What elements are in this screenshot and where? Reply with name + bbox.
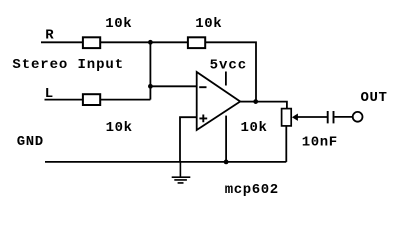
node R input	[45, 28, 54, 44]
op-amp U1	[197, 72, 241, 130]
label mcp602	[225, 182, 279, 198]
svg-text:10nF: 10nF	[302, 135, 338, 151]
resistor R2 value 10k	[195, 16, 222, 32]
potentiometer P1 value 10k	[241, 120, 268, 136]
wire summing node vertical	[149, 42, 151, 99]
svg-text:Stereo Input: Stereo Input	[12, 57, 124, 73]
capacitor C1 value 10nF	[302, 135, 338, 151]
wire R3 to summing node	[101, 99, 151, 101]
potentiometer wiper arrow	[292, 114, 298, 121]
junction output node	[253, 99, 258, 104]
label GND	[17, 134, 44, 150]
resistor R2 feedback	[188, 37, 205, 48]
op-amp non-inverting pin mark	[199, 115, 207, 123]
node L input	[45, 86, 54, 102]
junction V- on ground bus	[224, 160, 229, 165]
svg-text:R: R	[45, 28, 54, 44]
junction summing node top	[148, 40, 153, 45]
resistor R3 value 10k	[106, 120, 133, 136]
wire feedback to output node	[206, 42, 257, 101]
label 5vcc	[210, 57, 248, 73]
resistor R3	[83, 94, 100, 105]
resistor R1	[83, 37, 100, 48]
svg-text:10k: 10k	[106, 120, 133, 136]
wire output node to potentiometer top	[256, 102, 287, 109]
svg-text:5vcc: 5vcc	[210, 57, 248, 73]
svg-text:10k: 10k	[195, 16, 222, 32]
potentiometer P1	[282, 109, 292, 126]
svg-text:10k: 10k	[241, 120, 268, 136]
wire R1 to feedback resistor	[101, 41, 188, 43]
svg-text:10k: 10k	[105, 16, 132, 32]
op-amp inverting pin mark	[199, 86, 206, 88]
label Stereo Input	[12, 57, 124, 73]
svg-text:mcp602: mcp602	[225, 182, 279, 198]
wire wiper to capacitor	[298, 116, 328, 118]
resistor R1 value 10k	[105, 16, 132, 32]
svg-text:OUT: OUT	[361, 90, 388, 106]
ground symbol	[172, 162, 191, 183]
wire op-amp output	[240, 101, 256, 103]
label OUT	[361, 90, 388, 106]
wire capacitor to output terminal	[334, 116, 352, 118]
wire V- supply stub to ground bus	[225, 116, 227, 162]
output terminal	[353, 112, 363, 122]
wire to op-amp inverting input	[150, 85, 196, 87]
wire non-inverting input to ground bus	[180, 117, 197, 162]
junction inverting input	[148, 84, 153, 89]
wire ground bus	[45, 161, 286, 163]
wire L input to R3	[45, 99, 84, 101]
capacitor C1	[328, 111, 334, 123]
svg-text:GND: GND	[17, 134, 44, 150]
wire V+ supply stub	[225, 72, 227, 86]
wire R input to R1	[41, 41, 83, 43]
wire potentiometer bottom to ground bus	[285, 126, 287, 162]
